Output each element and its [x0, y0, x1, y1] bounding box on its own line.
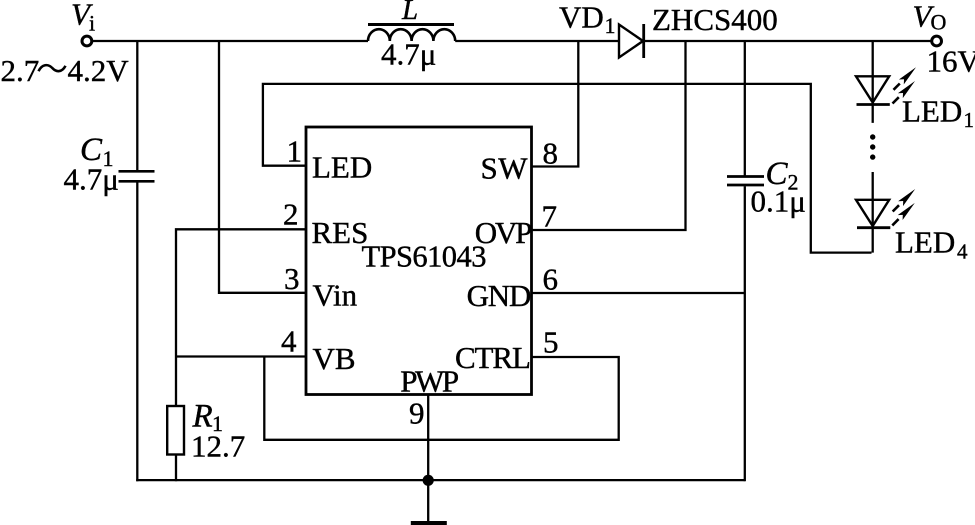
svg-text:LED: LED [895, 225, 955, 260]
junction dot PWP ground rail [423, 475, 434, 486]
svg-text:SW: SW [481, 151, 529, 186]
LED LED1 [856, 67, 916, 104]
svg-text:12.7: 12.7 [191, 429, 245, 464]
label LED1 [902, 94, 974, 133]
inductor L [368, 25, 455, 42]
wire LED string middle [872, 172, 874, 253]
wire ground rail [136, 479, 745, 481]
svg-text:TPS61043: TPS61043 [362, 240, 487, 274]
svg-text:O: O [931, 10, 947, 35]
wire C1 to ground rail [136, 183, 138, 482]
svg-text:4: 4 [281, 324, 297, 359]
svg-text:i: i [89, 11, 95, 36]
svg-text:5: 5 [543, 325, 559, 360]
svg-text:4.2V: 4.2V [68, 53, 130, 88]
wire VD1 cathode to Vo [644, 40, 932, 42]
label VD1 [559, 0, 616, 38]
wire GND pin to C2 net [532, 292, 745, 294]
svg-text:CTRL: CTRL [455, 340, 530, 375]
label 2.7~4.2V [1, 53, 130, 88]
svg-text:LED: LED [902, 94, 962, 129]
label LED4 [895, 225, 968, 264]
capacitor C2 [727, 177, 764, 186]
diode VD1 [619, 24, 644, 58]
wire LED pin to LED4 cathode return [263, 84, 872, 253]
svg-text:16V: 16V [927, 44, 975, 79]
svg-text:PWP: PWP [400, 364, 458, 399]
svg-text:1: 1 [287, 134, 303, 169]
svg-text:7: 7 [542, 199, 558, 234]
wire Vi to inductor L [92, 40, 368, 42]
svg-text:9: 9 [409, 396, 425, 431]
node Vi terminal [82, 36, 92, 46]
label C1 [80, 132, 114, 171]
svg-text:2.7: 2.7 [1, 53, 40, 88]
wire CTRL pin to VB net [264, 357, 618, 440]
wire PWP pin to ground [427, 395, 429, 522]
svg-text:4.7μ: 4.7μ [381, 37, 436, 72]
label Vi [71, 0, 95, 36]
svg-text:4: 4 [957, 240, 968, 264]
svg-text:4.7μ: 4.7μ [64, 162, 119, 197]
svg-text:6: 6 [543, 262, 559, 297]
svg-text:2: 2 [283, 197, 299, 232]
svg-text:3: 3 [284, 261, 300, 296]
LED LED4 [856, 189, 915, 228]
wire OVP pin to output net [532, 41, 686, 230]
wire VB pin to R1 top [176, 355, 306, 357]
svg-text:0.1μ: 0.1μ [751, 184, 806, 219]
wire C2 to ground rail [744, 186, 746, 481]
resistor R1 [167, 406, 184, 455]
svg-text:1: 1 [964, 108, 975, 132]
wire Vi node down to C1 [136, 41, 138, 170]
svg-text:GND: GND [467, 278, 531, 313]
wire SW pin to inductor-diode junction [532, 41, 579, 167]
svg-text:Vin: Vin [313, 278, 358, 313]
svg-text:L: L [401, 0, 418, 26]
ground symbol [411, 521, 447, 525]
IC U1 TPS61043 body [306, 127, 532, 395]
svg-text:ZHCS400: ZHCS400 [652, 2, 778, 37]
label C2 [766, 156, 799, 195]
wire R1 to ground rail [175, 455, 177, 482]
wire L to VD1 anode [455, 40, 619, 42]
node LED string ellipsis [870, 134, 875, 160]
wire Vin branch from top rail [219, 41, 306, 293]
svg-text:8: 8 [543, 136, 559, 171]
node Vo terminal [932, 36, 942, 46]
wire output net down to LED string [872, 41, 874, 123]
wire output net down to C2 [744, 41, 746, 176]
wire RES pin down to R1 [176, 229, 306, 406]
label R1 [192, 399, 224, 437]
svg-text:LED: LED [312, 150, 372, 185]
label Vo [913, 0, 947, 35]
svg-text:VB: VB [313, 341, 356, 376]
svg-text:RES: RES [312, 215, 369, 250]
svg-text:1: 1 [605, 13, 616, 38]
svg-text:OVP: OVP [475, 215, 531, 250]
svg-text:VD: VD [559, 0, 604, 35]
capacitor C1 [119, 171, 155, 181]
